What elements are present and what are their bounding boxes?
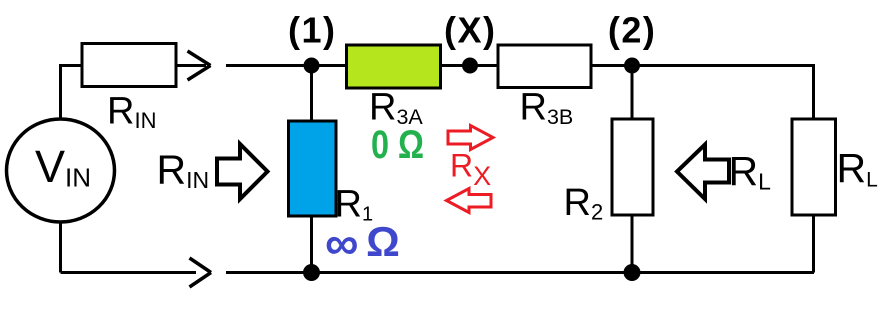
wire arrow to node 1 xyxy=(226,64,346,67)
bottom junction dot under R_1 xyxy=(303,264,320,281)
svg-text:(1): (1) xyxy=(288,10,337,51)
svg-text:RIN: RIN xyxy=(157,147,210,194)
arrowhead top wire xyxy=(188,51,211,80)
svg-text:(2): (2) xyxy=(608,10,657,51)
wire R_3B to node 2 and right xyxy=(591,64,814,67)
svg-text:R3B: R3B xyxy=(520,87,574,130)
svg-text:∞ Ω: ∞ Ω xyxy=(325,216,400,269)
svg-text:R2: R2 xyxy=(564,182,604,225)
svg-text:(X): (X) xyxy=(444,10,497,51)
wire top right down to R_L xyxy=(812,64,815,119)
wire node 2 down to R_2 xyxy=(631,66,634,120)
wire V_IN top to R_IN xyxy=(61,66,83,121)
svg-text:0 Ω: 0 Ω xyxy=(371,123,424,167)
wire R_1 to bottom xyxy=(310,216,313,273)
wire V_IN bottom down xyxy=(59,222,62,273)
resistor R_IN xyxy=(82,44,176,87)
red arrow right (toward R_X) xyxy=(448,126,493,150)
bottom junction dot under R_2 xyxy=(624,264,641,281)
svg-text:RL: RL xyxy=(837,145,878,192)
block arrow R_IN (white, pointing right) xyxy=(217,144,268,199)
block arrow R_L (white, pointing left) xyxy=(677,145,729,200)
bottom wire left segment xyxy=(61,271,197,274)
node 2 junction dot xyxy=(624,58,640,74)
source V_IN xyxy=(7,119,115,222)
wire node 1 down to R_1 xyxy=(310,66,313,122)
resistor R_L xyxy=(792,119,836,215)
wire R_L to bottom xyxy=(812,215,815,273)
resistor R_1 (blue) xyxy=(289,121,337,216)
red arrow left (from R_X) xyxy=(447,189,492,213)
resistor R_3A (green) xyxy=(347,45,441,88)
wire R_2 to bottom xyxy=(631,215,634,273)
svg-text:RL: RL xyxy=(729,148,772,195)
bottom wire main segment xyxy=(226,271,814,274)
resistor R_3B xyxy=(498,45,591,88)
arrowhead bottom wire xyxy=(190,258,212,287)
node 1 junction dot xyxy=(304,58,320,74)
wire R_IN to arrow xyxy=(176,64,206,67)
svg-text:RIN: RIN xyxy=(107,91,156,134)
wire R_3A to node X xyxy=(441,64,498,67)
resistor R_2 xyxy=(612,119,653,215)
svg-text:RX: RX xyxy=(450,148,491,192)
node X junction dot xyxy=(462,58,478,74)
